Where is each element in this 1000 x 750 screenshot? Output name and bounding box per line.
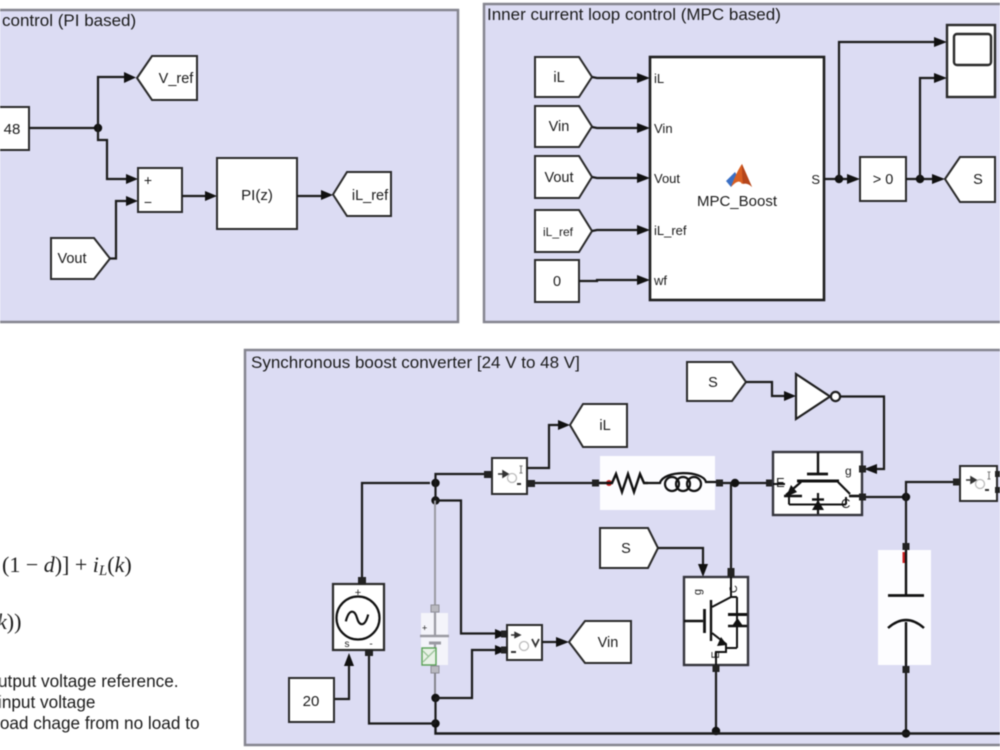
goto Vin <box>569 621 631 663</box>
svg-text:S: S <box>973 172 983 188</box>
area: inner current loop control (MPC based) <box>484 4 1000 322</box>
wire mosfet1 E to rail <box>715 672 717 734</box>
wire mosfet2 C to node N4 <box>866 496 906 498</box>
goto V_ref <box>137 56 197 100</box>
svg-text:> 0: > 0 <box>873 172 894 188</box>
voltage measurement VM1 <box>501 625 542 660</box>
wire iL_ref to MPC <box>592 230 637 231</box>
inductor L <box>648 473 716 491</box>
node N5 <box>902 729 910 737</box>
wire PI to iL_ref <box>297 195 321 197</box>
svg-text:V_ref: V_ref <box>159 71 195 87</box>
wire S2 up to scope input2 <box>920 78 934 179</box>
svg-text:iL_ref: iL_ref <box>543 225 574 239</box>
svg-text:(1 − d)] + iL(k): (1 − d)] + iL(k) <box>2 552 132 579</box>
svg-text:S: S <box>811 172 820 187</box>
wire 0 to MPC wf <box>579 280 637 281</box>
constant 20 <box>289 678 334 722</box>
wire CM1 out to RL <box>531 482 595 484</box>
wire S to NOT gate <box>746 382 784 396</box>
wire N4 to CM2 <box>906 482 953 497</box>
goto iL_ref <box>333 172 391 216</box>
svg-text:PI(z): PI(z) <box>241 187 273 204</box>
node junction48 <box>94 124 102 132</box>
svg-text:Vin: Vin <box>654 121 673 136</box>
wire VM1 to Vin goto <box>542 641 556 643</box>
wire left rail top <box>362 483 430 580</box>
wire Vin to MPC <box>592 127 637 128</box>
node N2 <box>431 496 439 504</box>
constant 48 <box>0 107 29 150</box>
wire CM1 i out to iL goto <box>527 425 558 468</box>
svg-text:Vout: Vout <box>57 251 86 267</box>
node N3 <box>731 479 739 487</box>
svg-text:0: 0 <box>553 274 561 290</box>
goto iL <box>570 404 627 447</box>
MATLAB function MPC_Boost <box>650 57 824 300</box>
resistor R <box>599 474 648 492</box>
wire S to mosfet1 g <box>658 548 703 564</box>
capacitor C <box>888 543 924 673</box>
from S (lower) <box>600 528 658 568</box>
wire Vout to sum minus <box>110 201 126 259</box>
svg-text:s: s <box>345 639 350 650</box>
svg-text:utput voltage reference.: utput voltage reference. <box>0 671 179 691</box>
area: synchronous boost converter <box>245 350 1000 745</box>
svg-text:iL: iL <box>553 70 564 86</box>
constant 0 <box>535 260 579 302</box>
wire 48 to junction <box>29 127 98 129</box>
svg-text:Vout: Vout <box>544 170 573 186</box>
matlab logo <box>726 172 738 187</box>
from Vin (mpc) <box>535 106 592 147</box>
goto S (mpc) <box>945 157 995 202</box>
node S2 <box>916 175 924 183</box>
RL branch highlight <box>600 456 715 510</box>
sum block <box>138 168 182 212</box>
scope <box>947 25 995 97</box>
wire NOT to mosfet2 g <box>840 397 884 470</box>
wire sum to PI <box>182 195 205 197</box>
svg-text:Synchronous boost converter [2: Synchronous boost converter [24 V to 48 … <box>251 353 580 372</box>
controlled voltage source <box>333 577 384 656</box>
battery branch (grayed) <box>420 501 449 699</box>
wire N4 down to capacitor <box>905 497 907 546</box>
node N4 <box>902 493 910 501</box>
from S (upper) <box>687 362 746 401</box>
svg-text:g: g <box>845 464 852 478</box>
svg-text:-: - <box>369 639 372 650</box>
svg-text:g: g <box>692 589 704 595</box>
svg-text:load chage from no load to: load chage from no load to <box>0 713 200 733</box>
wire N3 down to mosfet1 C <box>730 483 732 568</box>
wire N2 to Vin plus measure <box>436 501 498 634</box>
wire N1 to current sensor <box>436 474 488 483</box>
current measurement CM2 <box>960 466 1000 501</box>
svg-text:−: − <box>144 194 152 210</box>
RL branch right port <box>716 480 723 487</box>
svg-text:+: + <box>422 623 427 633</box>
svg-text:MPC_Boost: MPC_Boost <box>697 193 778 210</box>
wire 20 to source s <box>334 666 349 699</box>
svg-text:iL: iL <box>599 418 610 434</box>
logical NOT gate <box>796 374 840 419</box>
ground rail <box>436 724 1000 734</box>
from Vout (mpc) <box>535 156 592 198</box>
svg-text:Vin: Vin <box>598 635 619 651</box>
from iL <box>535 57 592 97</box>
wire >0 to S goto <box>906 178 932 180</box>
capacitor highlight <box>878 550 931 665</box>
wire Vout to MPC <box>592 177 637 178</box>
svg-text:input voltage: input voltage <box>0 692 95 712</box>
svg-text:+: + <box>144 172 152 188</box>
svg-text:Vin: Vin <box>549 119 570 135</box>
wire RL to mosfet2 E <box>723 482 766 484</box>
PI(z) controller <box>217 158 297 229</box>
wire source minus to N7 <box>369 653 436 724</box>
svg-text:S: S <box>621 541 631 557</box>
wire junction to sum plus <box>98 128 126 179</box>
wire N8 to N7 <box>434 698 436 724</box>
svg-text:control (PI based): control (PI based) <box>2 11 136 30</box>
node N6 <box>712 727 720 735</box>
wire N8 to Vin minus measure <box>436 650 498 698</box>
RL branch red marker <box>606 480 612 486</box>
svg-text:Inner current loop control (MP: Inner current loop control (MPC based) <box>487 5 781 24</box>
from iL_ref (mpc) <box>535 210 592 252</box>
RL branch left port <box>592 480 599 487</box>
node N1 <box>431 479 439 487</box>
mosfet1 (lower switch) <box>684 570 748 666</box>
node S1 <box>835 175 843 183</box>
node N8 <box>431 694 439 702</box>
wire capacitor to rail <box>905 673 907 734</box>
mosfet2 (upper switch) <box>773 452 862 515</box>
wire S1 up to scope input1 <box>839 42 934 179</box>
svg-text:iL_ref: iL_ref <box>352 188 389 204</box>
svg-text:48: 48 <box>4 121 21 138</box>
wire iL to MPC <box>592 77 637 78</box>
node N7 <box>431 719 439 727</box>
wire junction to V_ref <box>98 77 124 128</box>
from Vout <box>51 238 110 279</box>
svg-text:wf: wf <box>653 273 667 288</box>
wire N1-N2 <box>434 483 436 501</box>
current measurement CM1 <box>492 458 527 494</box>
area: outer voltage control (PI based) <box>0 10 458 322</box>
svg-text:iL_ref: iL_ref <box>654 223 687 238</box>
svg-text:iL: iL <box>654 71 664 86</box>
compare > 0 <box>860 157 906 201</box>
svg-text:C: C <box>728 585 740 593</box>
svg-text:S: S <box>708 375 718 391</box>
wire MPC S out <box>824 178 847 180</box>
svg-text:k)): k)) <box>0 609 21 634</box>
svg-text:Vout: Vout <box>654 171 680 186</box>
svg-text:20: 20 <box>303 693 320 710</box>
svg-text:E: E <box>776 475 785 490</box>
